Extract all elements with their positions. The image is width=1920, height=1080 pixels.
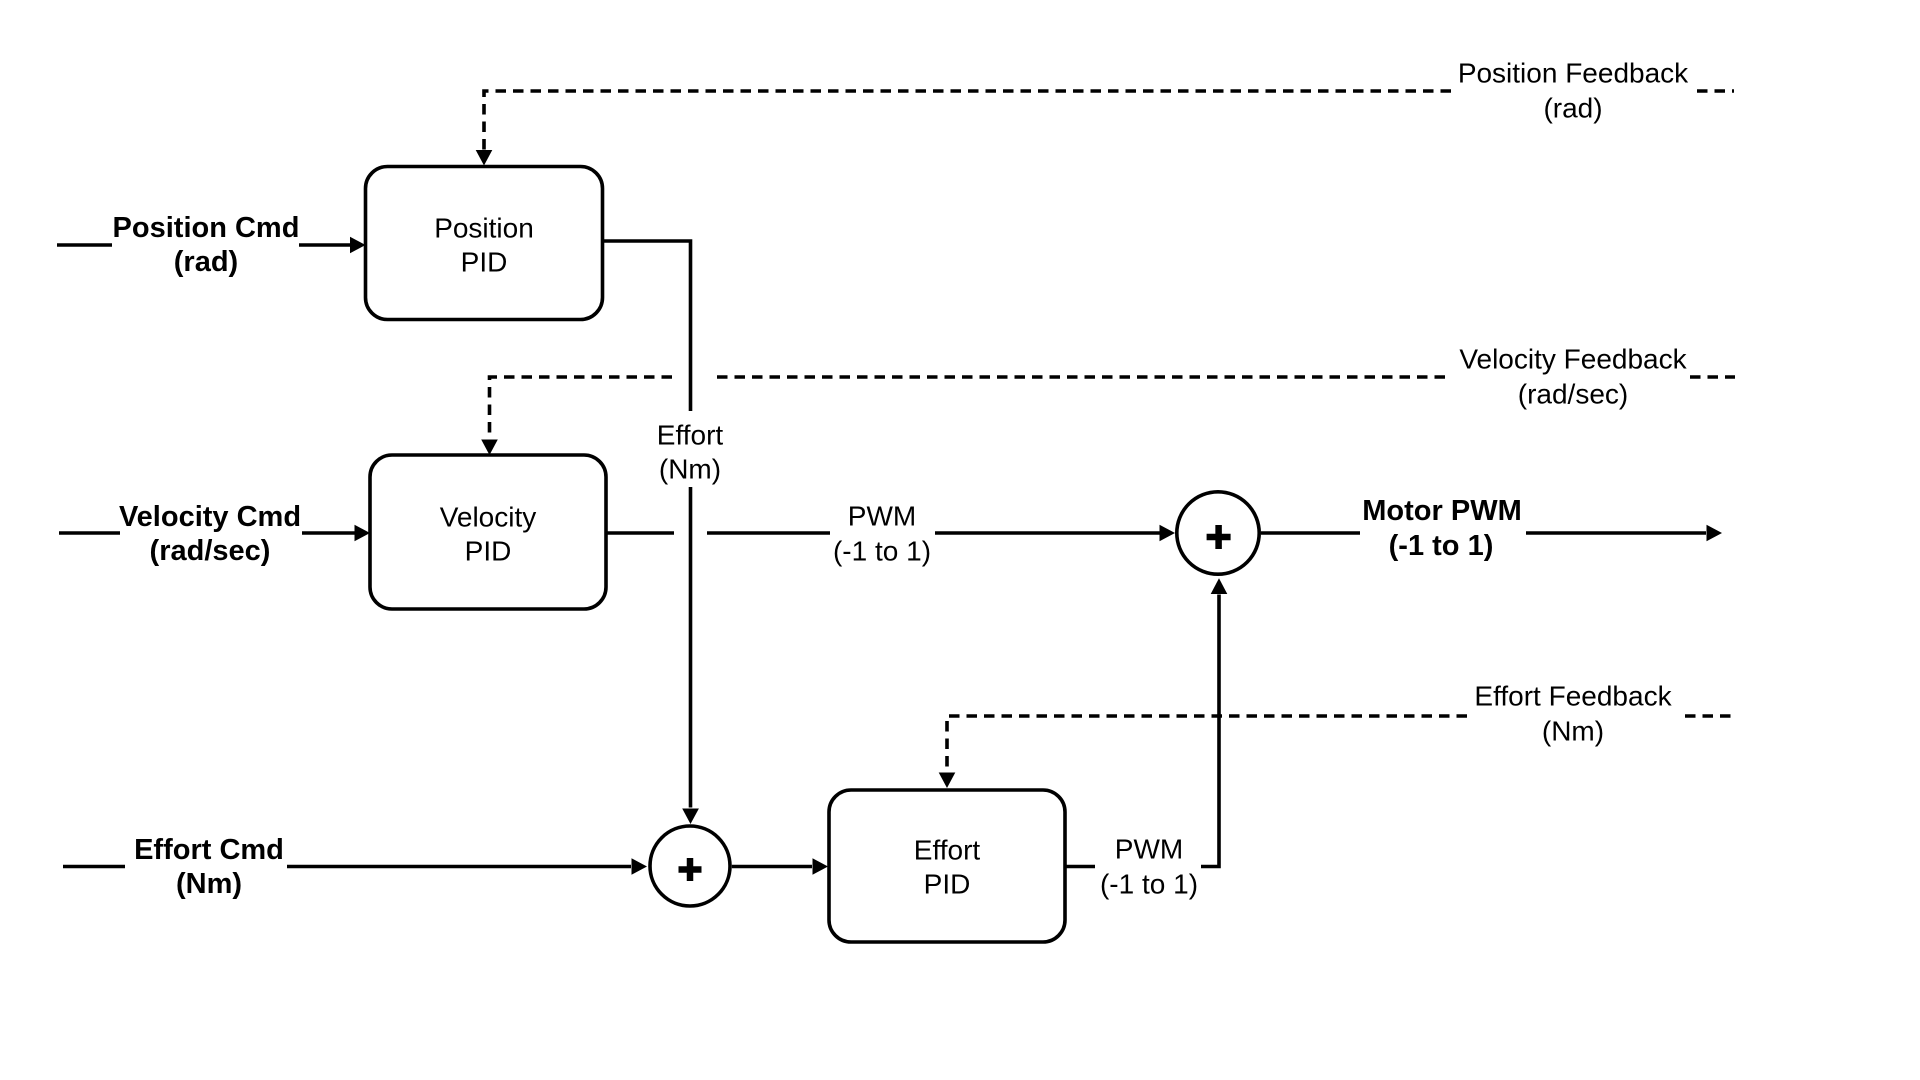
wire lower summing junction output: [732, 865, 812, 869]
svg-text:(Nm): (Nm): [176, 868, 242, 900]
arrowhead effort line into lower summing junction: [682, 809, 699, 825]
svg-text:(Nm): (Nm): [659, 454, 721, 485]
wire effort pid output stub: [1065, 865, 1096, 869]
wire velocity cmd arrow line: [302, 531, 355, 535]
wire velocity pid output segment 1: [606, 531, 674, 535]
svg-text:Velocity Cmd: Velocity Cmd: [119, 501, 301, 533]
arrowhead velocity cmd into Velocity PID: [355, 525, 371, 542]
svg-text:Motor PWM: Motor PWM: [1362, 495, 1521, 527]
svg-text:(rad/sec): (rad/sec): [150, 535, 271, 567]
svg-text:(-1 to 1): (-1 to 1): [1389, 530, 1494, 562]
block Position PID: [366, 167, 603, 320]
svg-text:(rad/sec): (rad/sec): [1518, 379, 1628, 410]
arrowhead position cmd into Position PID: [350, 237, 366, 254]
arrowhead lower summing junction into Effort PID: [813, 858, 829, 875]
plus sign top summing junction: [1207, 525, 1231, 549]
wire velocity feedback dashed line: [712, 375, 1445, 379]
wire effort cmd left stub: [63, 865, 125, 869]
svg-text:Position: Position: [434, 213, 534, 244]
wire position cmd arrow line: [299, 243, 350, 247]
svg-text:(rad): (rad): [1543, 93, 1602, 124]
arrowhead effort feedback into Effort PID: [939, 773, 956, 789]
wire effort feedback right stub: [1685, 714, 1732, 718]
svg-text:(Nm): (Nm): [1542, 716, 1604, 747]
wire position pid output to effort node: [603, 241, 691, 411]
wire position feedback right stub: [1697, 89, 1734, 93]
wire velocity pid output segment 2: [707, 531, 830, 535]
arrowhead velocity pwm into top summing junction: [1160, 525, 1176, 542]
wire velocity feedback dashed left part: [490, 377, 673, 440]
wire motor pwm output segment 2: [1526, 531, 1706, 535]
svg-text:Velocity Feedback: Velocity Feedback: [1459, 344, 1687, 375]
svg-text:PID: PID: [465, 536, 512, 567]
svg-text:Effort: Effort: [914, 835, 981, 866]
wire effort vertical lower segment: [689, 487, 693, 808]
svg-text:Position Feedback: Position Feedback: [1458, 58, 1689, 89]
svg-text:(-1 to 1): (-1 to 1): [1100, 869, 1198, 900]
block Effort PID: [829, 790, 1065, 942]
arrowhead effort pwm into top summing junction from below: [1211, 578, 1228, 594]
svg-text:PID: PID: [461, 247, 508, 278]
svg-text:PID: PID: [924, 869, 971, 900]
wire motor pwm output segment 1: [1261, 531, 1360, 535]
arrowhead position feedback into Position PID: [476, 150, 493, 166]
wire effort cmd long arrow line: [287, 865, 631, 869]
svg-text:Position Cmd: Position Cmd: [113, 212, 300, 244]
svg-text:(-1 to 1): (-1 to 1): [833, 536, 931, 567]
svg-text:PWM: PWM: [848, 501, 916, 532]
svg-text:Effort: Effort: [657, 420, 724, 451]
svg-text:Effort Cmd: Effort Cmd: [134, 834, 284, 866]
arrowhead velocity feedback into Velocity PID: [481, 440, 498, 456]
wire velocity feedback right stub: [1690, 375, 1735, 379]
wire effort feedback dashed line: [947, 716, 1467, 772]
svg-text:Velocity: Velocity: [440, 502, 537, 533]
block Velocity PID: [370, 455, 606, 609]
svg-text:Effort Feedback: Effort Feedback: [1474, 681, 1672, 712]
arrowhead motor pwm output: [1707, 525, 1723, 542]
plus sign lower summing junction: [679, 858, 702, 881]
arrowhead effort cmd into lower summing junction: [632, 858, 648, 875]
summing junction lower: [650, 826, 730, 906]
svg-text:(rad): (rad): [174, 246, 238, 278]
wire velocity pid output segment 3 to summing junction: [935, 531, 1160, 535]
wire position cmd left stub: [57, 243, 112, 247]
wire position feedback dashed line: [484, 91, 1451, 150]
wire velocity cmd left stub: [59, 531, 120, 535]
wire effort pwm up to summing junction: [1201, 595, 1219, 867]
summing junction top: [1177, 492, 1259, 574]
svg-text:PWM: PWM: [1115, 834, 1183, 865]
